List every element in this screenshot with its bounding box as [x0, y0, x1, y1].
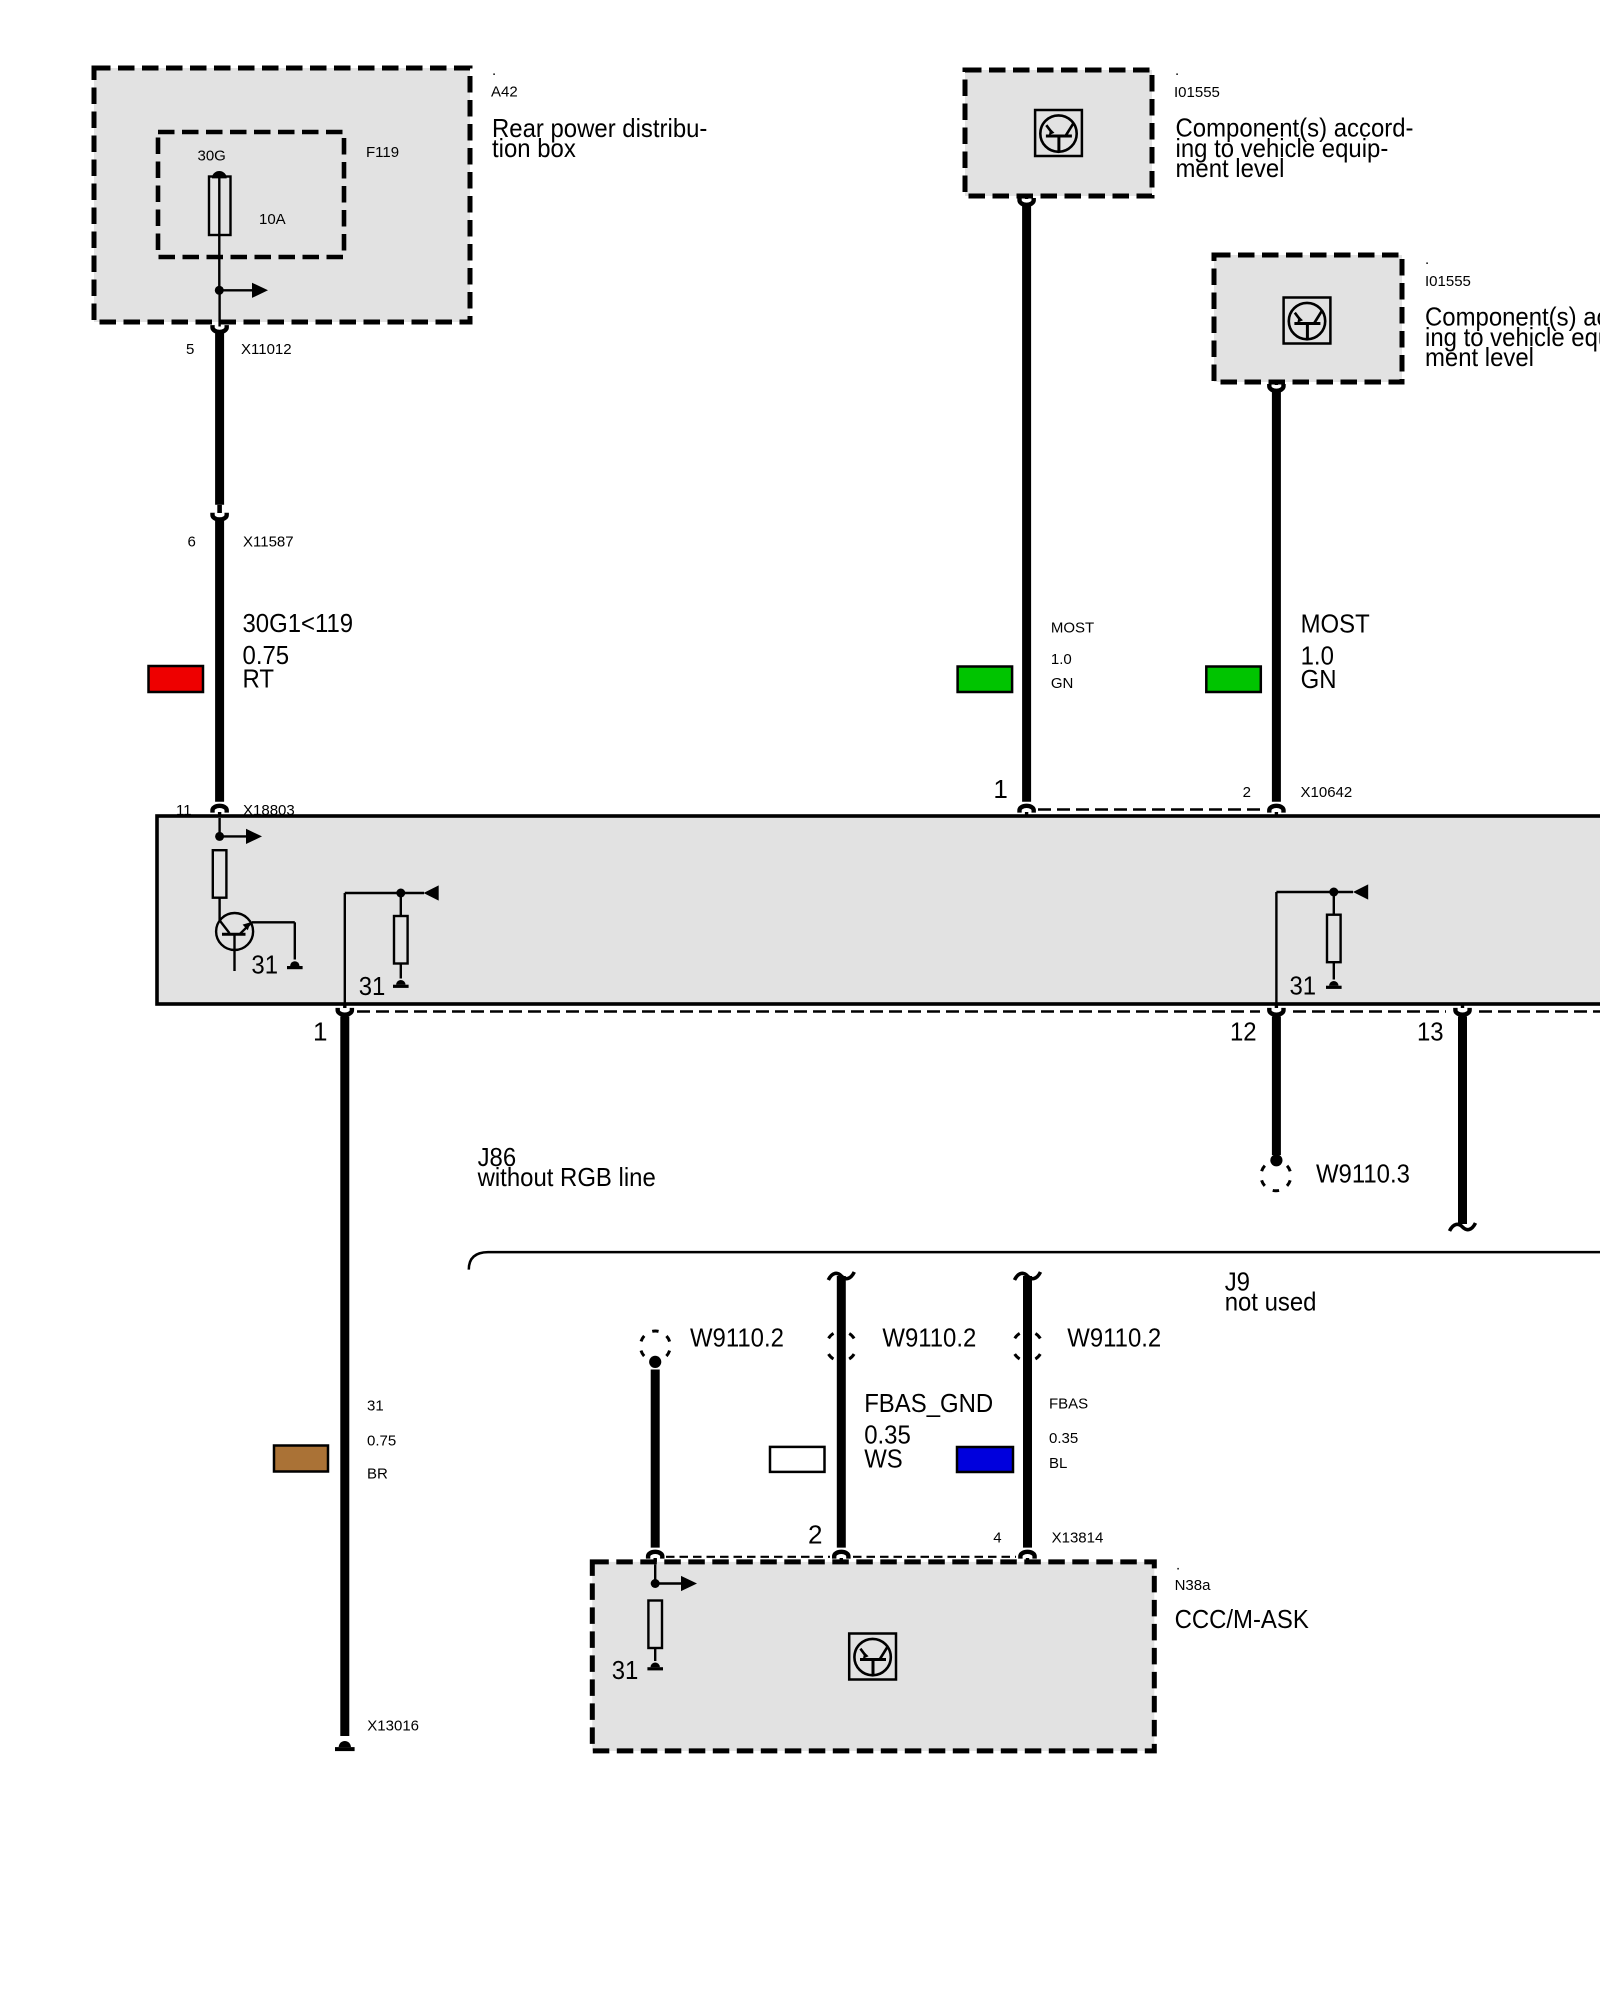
- fuse F119 10A: [209, 171, 231, 290]
- connector cup CCC pin 4: [1020, 1552, 1034, 1565]
- power distribution box A42: [94, 68, 470, 322]
- control unit CCC/M-ASK box N38a: [592, 1562, 1154, 1751]
- control unit icon (right I01555): [1284, 298, 1331, 344]
- wire pin 11 into band: [218, 818, 220, 836]
- svg-text:I01555: I01555: [1174, 84, 1220, 101]
- fuse holder box F119: [158, 132, 344, 257]
- wire FBAS_GND WS (thick): [837, 1276, 846, 1548]
- connector at I01555 (top) exit: [1020, 196, 1034, 205]
- dashed line below band: [357, 1010, 1260, 1013]
- wire into CCC: [654, 1565, 656, 1584]
- svg-text:12: 12: [1230, 1017, 1257, 1047]
- connector X11012 pin 5: [213, 325, 227, 332]
- svg-text:ment level: ment level: [1176, 153, 1285, 183]
- svg-text:GN: GN: [1301, 664, 1337, 694]
- wire break symbol pin 13: [1450, 1223, 1476, 1231]
- svg-text:.: .: [1176, 1557, 1180, 1574]
- svg-text:2: 2: [1243, 784, 1251, 801]
- connector cup band pin 1: [1020, 806, 1034, 818]
- connector cup band bottom pin 1: [338, 1004, 352, 1015]
- termination pin 12: wire up from pin 12: [1276, 892, 1353, 1004]
- wire break symbol (FBAS_GND top): [828, 1272, 854, 1280]
- component box I01555 (right): [1214, 255, 1402, 382]
- svg-text:2: 2: [808, 1519, 822, 1549]
- svg-text:1: 1: [993, 774, 1007, 804]
- colour chip brown BR: [274, 1446, 328, 1472]
- svg-text:tion box: tion box: [492, 133, 576, 163]
- wire X11587 to pin 11 (thick, 30G1 RT): [215, 521, 224, 802]
- colour chip blue BL: [957, 1447, 1013, 1472]
- svg-text:MOST: MOST: [1051, 619, 1094, 636]
- transistor output to ground 31: [252, 922, 295, 959]
- arrow to other circuits (A42): [252, 283, 268, 298]
- svg-text:31: 31: [612, 1655, 639, 1685]
- connector cup CCC pin (left): [648, 1552, 662, 1565]
- junction node in A42: [215, 286, 252, 295]
- connector X11587 pin 6: [213, 505, 227, 520]
- svg-text:X11587: X11587: [243, 534, 294, 551]
- svg-text:W9110.3: W9110.3: [1316, 1159, 1410, 1189]
- svg-text:WS: WS: [864, 1443, 903, 1473]
- junction node in CCC: [651, 1579, 681, 1588]
- junction node (termination pin 1): [396, 889, 405, 898]
- ground 31 (CCC): [647, 1663, 663, 1671]
- svg-text:31: 31: [251, 950, 278, 980]
- svg-text:X10642: X10642: [1301, 784, 1353, 801]
- svg-text:X13016: X13016: [367, 1717, 419, 1734]
- termination pin 1: wire up from pin 1: [345, 893, 424, 1004]
- wire pin 12 to splice W9110.3 (thick): [1272, 1016, 1281, 1155]
- svg-text:A42: A42: [491, 84, 518, 101]
- connector cup band bottom pin 12: [1269, 1004, 1283, 1015]
- svg-text:X11012: X11012: [241, 341, 292, 358]
- svg-text:W9110.2: W9110.2: [690, 1323, 784, 1353]
- resistor (termination pin 12): [1327, 892, 1341, 980]
- ground 31 (transistor): [287, 961, 303, 969]
- wire X11012 to X11587 (thick): [215, 333, 224, 505]
- svg-text:FBAS_GND: FBAS_GND: [864, 1388, 993, 1418]
- junction node band left: [215, 832, 246, 841]
- dashed rail between band pins 1 and 2: [1038, 808, 1265, 811]
- svg-text:W9110.2: W9110.2: [882, 1323, 976, 1353]
- splice W9110.3 dashed circle: [1261, 1161, 1291, 1191]
- wire pin 1 to ground X13016 (thick, BR): [340, 1016, 349, 1736]
- svg-text:.: .: [1425, 251, 1429, 268]
- colour chip green (left MOST): [958, 667, 1013, 693]
- junction node (termination pin 12): [1329, 888, 1338, 897]
- ground point X13016: [335, 1741, 355, 1751]
- svg-text:ment level: ment level: [1425, 342, 1534, 372]
- svg-text:13: 13: [1417, 1017, 1444, 1047]
- colour chip green (right MOST): [1206, 667, 1261, 693]
- svg-text:1: 1: [313, 1017, 327, 1047]
- svg-text:BR: BR: [367, 1466, 388, 1483]
- resistor (CCC): [648, 1601, 662, 1662]
- transistor (electronic switch): [216, 913, 253, 971]
- arrow from other circuits (termination pin 1): [424, 885, 439, 900]
- arrow from other circuits (termination pin 12): [1353, 884, 1368, 899]
- wire pin 13 continuation (thick): [1458, 1016, 1467, 1224]
- svg-text:FBAS: FBAS: [1049, 1395, 1088, 1412]
- ground 31 (termination pin 12): [1326, 981, 1342, 989]
- connector at I01555 (right) exit: [1269, 382, 1283, 391]
- svg-text:31: 31: [359, 971, 386, 1001]
- svg-text:30G1<119: 30G1<119: [243, 608, 354, 638]
- wire from fuse to pin 5: [218, 290, 220, 326]
- svg-text:BL: BL: [1049, 1455, 1067, 1472]
- svg-text:0.35: 0.35: [1049, 1430, 1078, 1447]
- svg-text:31: 31: [367, 1398, 384, 1415]
- arrow to other circuits (band left): [246, 829, 262, 844]
- connector X18803 pin 11 (band entry): [213, 806, 227, 818]
- colour chip red RT: [149, 666, 204, 692]
- ground 31 (termination pin 1): [393, 980, 409, 988]
- svg-text:not used: not used: [1225, 1287, 1317, 1317]
- resistor (termination pin 1): [394, 893, 408, 979]
- wire from W9110.2 no1 to CCC (thick): [651, 1370, 660, 1548]
- svg-text:4: 4: [993, 1530, 1001, 1547]
- arrow to other circuits (CCC): [681, 1576, 697, 1591]
- MOST wire from right I01555 to band pin 2 (thick): [1272, 392, 1281, 802]
- svg-text:.: .: [492, 62, 496, 79]
- connector cup CCC pin 2: [834, 1552, 848, 1565]
- svg-text:GN: GN: [1051, 675, 1074, 692]
- splice W9110.2 no2 dashed circle: [826, 1331, 856, 1361]
- svg-text:1.0: 1.0: [1051, 651, 1072, 668]
- resistor (band supply): [213, 850, 227, 920]
- svg-text:CCC/M-ASK: CCC/M-ASK: [1175, 1604, 1310, 1634]
- colour chip white WS: [770, 1447, 825, 1472]
- splice terminal dot W9110.2 no1: [649, 1356, 661, 1368]
- svg-text:5: 5: [186, 341, 194, 358]
- svg-text:RT: RT: [243, 664, 275, 694]
- control unit icon (CCC): [849, 1634, 896, 1680]
- splice terminal dot W9110.3: [1270, 1154, 1282, 1166]
- control unit icon (top I01555): [1035, 110, 1082, 156]
- dashed rail X13814: [666, 1556, 830, 1558]
- control module band (grey): [157, 816, 1600, 1004]
- svg-text:I01555: I01555: [1425, 273, 1471, 290]
- splice W9110.2 no1 dashed circle: [640, 1331, 670, 1361]
- svg-text:W9110.2: W9110.2: [1067, 1323, 1161, 1353]
- svg-text:F119: F119: [366, 144, 399, 161]
- svg-text:MOST: MOST: [1301, 609, 1370, 639]
- svg-text:X13814: X13814: [1052, 1530, 1104, 1547]
- wire FBAS BL (thick): [1023, 1276, 1032, 1548]
- connector cup band pin 2: [1269, 806, 1283, 818]
- svg-text:0.75: 0.75: [367, 1433, 396, 1450]
- svg-text:6: 6: [188, 534, 196, 551]
- bracket J9: [469, 1252, 1600, 1270]
- svg-text:without RGB line: without RGB line: [477, 1162, 656, 1192]
- connector cup band bottom pin 13: [1455, 1004, 1469, 1015]
- component box I01555 (top): [965, 70, 1152, 196]
- svg-text:N38a: N38a: [1175, 1577, 1212, 1594]
- svg-text:31: 31: [1290, 971, 1317, 1001]
- MOST wire from top I01555 to band pin 1 (thick): [1022, 206, 1031, 802]
- wire break symbol (FBAS top): [1015, 1272, 1041, 1280]
- svg-text:30G: 30G: [198, 148, 226, 165]
- splice W9110.2 no3 dashed circle: [1013, 1331, 1043, 1361]
- svg-text:10A: 10A: [259, 211, 286, 228]
- svg-text:.: .: [1175, 62, 1179, 79]
